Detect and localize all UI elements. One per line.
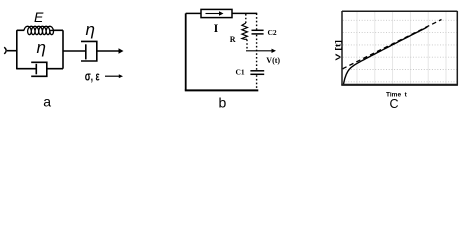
svg-text:V [t]: V [t] — [335, 40, 342, 61]
svg-text:R: R — [230, 35, 236, 44]
svg-text:η: η — [37, 38, 46, 57]
svg-text:a: a — [43, 94, 51, 110]
svg-text:C2: C2 — [268, 28, 277, 37]
svg-text:C1: C1 — [236, 68, 245, 77]
svg-text:V(t): V(t) — [266, 56, 280, 65]
svg-text:η: η — [86, 20, 95, 39]
svg-text:I: I — [214, 21, 219, 35]
svg-text:E: E — [34, 9, 44, 25]
svg-text:C: C — [390, 97, 399, 110]
svg-text:b: b — [219, 95, 227, 111]
svg-text:σ, ε: σ, ε — [85, 69, 100, 83]
